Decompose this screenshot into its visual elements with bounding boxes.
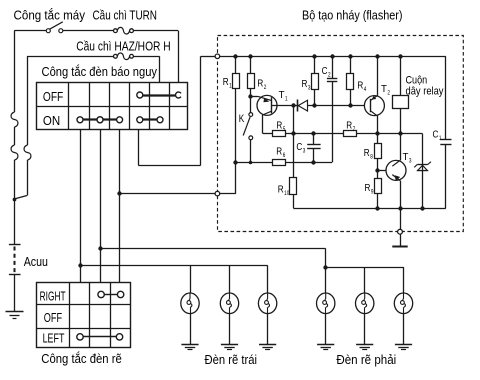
svg-text:3: 3 [303,148,306,155]
svg-text:C: C [296,141,302,153]
svg-text:K: K [239,113,245,125]
svg-text:R: R [257,78,263,90]
svg-text:Cầu chì HAZ/HOR H: Cầu chì HAZ/HOR H [76,40,171,54]
svg-text:10: 10 [284,190,289,197]
svg-text:dây relay: dây relay [406,86,444,98]
svg-text:5: 5 [283,126,286,133]
svg-text:R: R [346,120,352,132]
svg-text:Cầu chì TURN: Cầu chì TURN [93,9,158,23]
svg-text:Công tắc đèn rẽ: Công tắc đèn rẽ [41,351,122,366]
svg-text:OFF: OFF [44,311,63,325]
svg-text:Công tắc máy: Công tắc máy [14,8,86,23]
svg-text:R: R [302,78,308,90]
svg-text:1: 1 [439,135,442,142]
svg-text:R: R [276,120,282,132]
svg-text:R: R [223,76,229,88]
svg-text:ON: ON [43,114,60,128]
svg-text:3: 3 [308,85,311,92]
svg-text:Đèn rẽ phải: Đèn rẽ phải [336,353,396,367]
svg-text:9: 9 [371,189,374,196]
svg-text:Đèn rẽ trái: Đèn rẽ trái [205,353,258,367]
svg-text:R: R [278,184,284,196]
svg-text:2: 2 [328,72,331,79]
svg-text:Bộ tạo nháy (flasher): Bộ tạo nháy (flasher) [302,9,403,23]
svg-text:C: C [433,129,439,141]
svg-text:2: 2 [264,84,267,91]
svg-text:R: R [364,147,370,159]
svg-text:1: 1 [285,96,288,103]
svg-text:OFF: OFF [43,90,64,104]
svg-text:1: 1 [229,83,232,90]
svg-text:C: C [322,65,328,77]
svg-text:LEFT: LEFT [43,332,65,346]
svg-text:Công tắc đèn báo nguy: Công tắc đèn báo nguy [42,64,158,79]
svg-text:4: 4 [364,86,367,93]
svg-text:3: 3 [409,158,412,165]
svg-text:2: 2 [387,90,390,97]
svg-text:7: 7 [353,126,356,133]
svg-text:6: 6 [283,152,286,159]
svg-text:R: R [365,182,371,194]
svg-text:Acuu: Acuu [24,255,48,269]
svg-text:8: 8 [370,154,373,161]
svg-text:RIGHT: RIGHT [40,290,66,304]
svg-text:R: R [276,146,282,158]
svg-text:R: R [357,80,363,92]
